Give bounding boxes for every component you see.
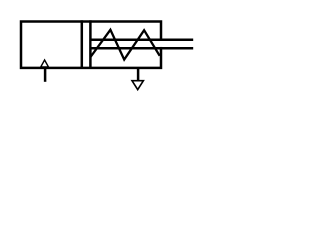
piston face line (left) — [81, 20, 84, 69]
piston face line (right) — [89, 20, 92, 69]
exhaust port line — [137, 68, 140, 81]
return spring (zigzag) — [91, 30, 160, 60]
piston rod (white body erasing end cap) — [92, 41, 194, 47]
cylinder barrel (single-acting cylinder body) — [21, 22, 161, 68]
piston rod top edge — [91, 38, 193, 41]
supply port line — [44, 67, 47, 82]
supply flow arrow (hollow, pointing up into chamber) — [41, 60, 49, 67]
piston rod bottom edge — [91, 47, 193, 50]
exhaust vent triangle (hollow, pointing down) — [132, 81, 143, 90]
